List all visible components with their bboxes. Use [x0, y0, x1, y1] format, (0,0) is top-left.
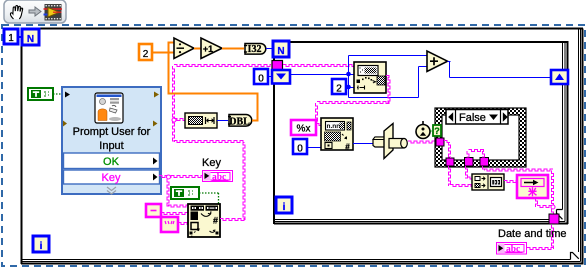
constant 2 orange — [139, 44, 152, 60]
wire I32 to N — [266, 48, 273, 50]
tunnel case bottom 2 — [465, 158, 474, 167]
svg-text:Input: Input — [99, 140, 123, 152]
string tunnel — [272, 61, 283, 71]
wire 0 to shift register — [268, 76, 272, 78]
case selector terminal — [433, 125, 441, 136]
svg-text:DBL: DBL — [229, 116, 250, 127]
wire DBL out — [252, 120, 258, 122]
tunnel case left — [436, 138, 444, 146]
express VI icon — [95, 93, 123, 123]
wire Key to search node — [168, 205, 188, 207]
boolean constant T2 — [171, 187, 199, 199]
string constant dash — [146, 204, 161, 217]
wire SR to replace node — [290, 74, 354, 76]
svg-text:2: 2 — [336, 84, 342, 95]
constant 1 — [4, 29, 18, 44]
svg-text:I32: I32 — [248, 44, 262, 55]
toolbar hand icon — [10, 5, 22, 19]
Key string indicator — [203, 171, 233, 182]
wire bottom run — [349, 97, 419, 99]
format datetime node — [517, 175, 548, 198]
inner for loop border — [273, 41, 569, 224]
tunnel case bottom 3 — [480, 158, 489, 167]
svg-text:Prompt User for: Prompt User for — [73, 126, 151, 138]
svg-text:i: i — [40, 241, 43, 252]
outer loop fold corner — [571, 252, 579, 259]
wire 1 to N — [18, 36, 22, 38]
string length node — [185, 113, 217, 128]
format string constant — [291, 120, 316, 135]
date time indicator — [497, 243, 527, 255]
wire DBL up — [257, 93, 259, 122]
svg-text:N: N — [277, 46, 284, 57]
svg-text:Key: Key — [202, 157, 221, 169]
svg-text:#: # — [213, 216, 218, 226]
case selector label — [446, 110, 508, 125]
wire t3 down — [466, 166, 468, 179]
wire Key to indicator — [159, 176, 202, 178]
tunnel datetime — [549, 214, 559, 224]
svg-text:Key: Key — [102, 172, 121, 184]
wire format down — [536, 198, 538, 207]
svg-text:N: N — [27, 34, 34, 45]
wire T2 to search node — [199, 192, 219, 194]
wire string to tunnel — [174, 65, 271, 67]
wire into divide top — [168, 42, 175, 44]
I32 conversion node — [245, 44, 266, 55]
inner loop fold corner — [557, 210, 564, 219]
express VI left lower arrow — [63, 121, 67, 127]
wire incr to I32 — [222, 48, 244, 50]
wire clock to selector — [430, 130, 433, 132]
junction datetime — [551, 205, 555, 209]
wire quotes to search node — [178, 223, 188, 225]
wire into format value — [316, 124, 321, 126]
wire down to format — [316, 103, 318, 123]
toolbar arrow icon — [29, 7, 41, 16]
express VI right lower arrow — [153, 121, 158, 127]
wire string across — [174, 141, 245, 143]
svg-text:?: ? — [434, 126, 440, 136]
wire strlen to DBL — [217, 120, 228, 122]
wire case t1 to t2 — [444, 141, 450, 143]
svg-text:0: 0 — [297, 144, 303, 155]
wire to add top — [349, 55, 428, 57]
svg-text:False: False — [459, 112, 486, 124]
wire divide branch — [168, 42, 170, 95]
wire search output up — [243, 142, 245, 220]
wire add out — [448, 61, 451, 63]
wire DBL left — [168, 93, 259, 95]
inner loop N terminal — [273, 41, 289, 57]
wire t2 down — [449, 166, 451, 186]
wire replace down — [388, 77, 390, 103]
add node — [427, 51, 448, 72]
wire case arch — [467, 151, 469, 158]
express VI OK row — [64, 153, 160, 169]
svg-text:i: i — [283, 202, 286, 213]
constant 0 inner — [293, 139, 307, 154]
boolean constant T1 — [28, 88, 53, 100]
convert node — [472, 174, 504, 190]
wire 0 to format value — [307, 147, 321, 149]
express VI input arrow — [65, 92, 70, 98]
wire divide to incr — [194, 48, 201, 50]
wire up to add — [418, 67, 420, 98]
wire string up left — [173, 66, 175, 142]
shift register left — [272, 70, 290, 84]
shift register right — [551, 70, 568, 84]
outer loop i terminal — [33, 236, 49, 252]
wire replace out — [386, 76, 390, 78]
string constant quotes — [161, 217, 178, 232]
divide node — [174, 38, 194, 59]
express VI chevron — [107, 187, 116, 191]
svg-text:%x: %x — [297, 124, 311, 135]
inner loop i terminal — [276, 197, 292, 213]
wire T1 to express VI — [53, 93, 63, 95]
constant 2 inner — [332, 79, 346, 94]
wire convert to format — [504, 181, 517, 183]
wire tunnel to replace node — [283, 65, 354, 67]
search replace string node — [188, 204, 220, 237]
svg-text:Date and time: Date and time — [498, 228, 566, 240]
wire t4 route — [483, 166, 485, 171]
svg-text:+1: +1 — [203, 44, 213, 54]
svg-text:OK: OK — [103, 156, 120, 168]
replace substring node — [354, 62, 386, 93]
svg-text:#: # — [345, 143, 350, 152]
tunnel case bottom 1 — [446, 158, 454, 166]
wire tunnel5 down — [552, 225, 554, 249]
express VI frame — [62, 87, 161, 194]
svg-text:n.nn: n.nn — [327, 123, 341, 130]
wire to string length — [174, 119, 185, 121]
svg-text:米: 米 — [528, 187, 537, 197]
clock node — [422, 121, 424, 125]
wire 2 to replace node — [346, 87, 354, 89]
wire format value out — [353, 143, 373, 145]
wire search output — [220, 219, 245, 221]
DBL conversion node — [229, 115, 252, 127]
svg-text:1: 1 — [8, 33, 14, 44]
wire replace left — [317, 102, 390, 104]
svg-text:0: 0 — [258, 74, 264, 85]
format value node — [321, 118, 353, 150]
toolbar vi icon — [45, 4, 62, 21]
constant 0 outer — [254, 69, 268, 84]
express VI Key row — [64, 170, 160, 184]
wire Key branch down — [167, 179, 169, 207]
wire into tunnel5 — [552, 209, 554, 214]
wire junction vertical — [348, 56, 350, 98]
wire 2 to divide — [152, 52, 174, 54]
wire typecast out — [408, 141, 436, 143]
type cast node — [373, 137, 389, 147]
increment node — [201, 38, 222, 59]
wire dash to search node — [161, 213, 188, 215]
svg-text:2: 2 — [143, 49, 149, 60]
express VI right arrow — [154, 92, 159, 98]
outer loop N terminal — [22, 29, 39, 45]
